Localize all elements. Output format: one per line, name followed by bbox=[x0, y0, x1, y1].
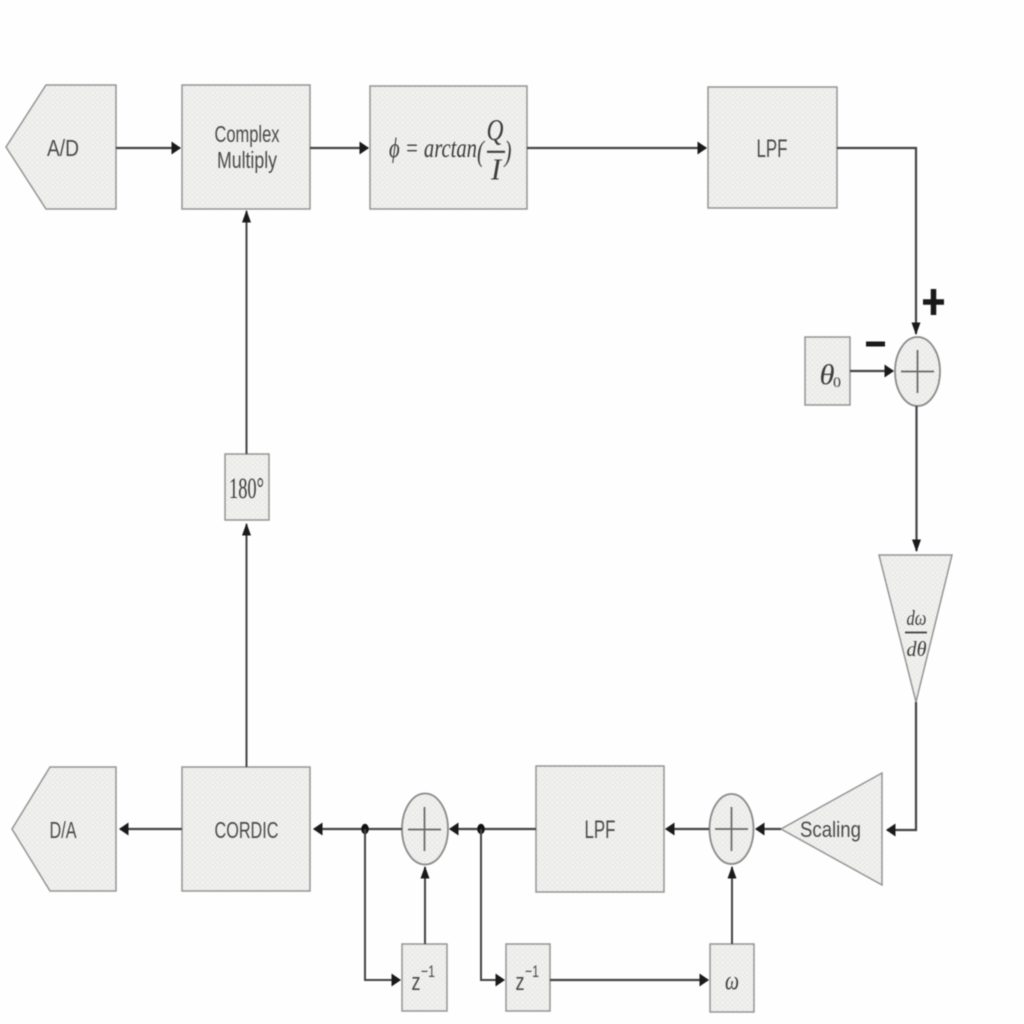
svg-text:Q: Q bbox=[487, 112, 504, 147]
summer 2 (bottom right adder) bbox=[710, 794, 754, 864]
svg-text:A/D: A/D bbox=[47, 135, 79, 161]
block omega bbox=[710, 944, 754, 1012]
block dw/dtheta triangle bbox=[879, 555, 952, 702]
wire 180 deg up to Complex Multiply bbox=[246, 211, 248, 454]
junction dot left bbox=[361, 824, 369, 834]
svg-text:ω: ω bbox=[725, 966, 739, 995]
wire CORDIC up to 180 deg block bbox=[246, 524, 248, 767]
svg-text:Scaling: Scaling bbox=[800, 817, 861, 842]
svg-text:z: z bbox=[412, 969, 421, 996]
svg-text:LPF: LPF bbox=[585, 816, 616, 844]
block theta0 bbox=[805, 337, 850, 405]
block Scaling triangle bbox=[781, 773, 882, 885]
svg-text:): ) bbox=[503, 135, 511, 168]
block phi = arctan(Q/I) bbox=[370, 86, 527, 209]
svg-text:dθ: dθ bbox=[907, 637, 927, 661]
summer 3 (bottom left adder) bbox=[402, 794, 448, 865]
wire omega up to summer 2 bbox=[731, 867, 733, 944]
wire junction right down to z-1 box 2 bbox=[481, 829, 504, 980]
wire z-1 second to omega block bbox=[550, 979, 708, 981]
svg-text:z: z bbox=[516, 969, 525, 996]
svg-text:ϕ = arctan: ϕ = arctan bbox=[389, 133, 477, 163]
block CORDIC bbox=[182, 767, 310, 891]
svg-text:I: I bbox=[490, 152, 503, 187]
wire A/D to Complex Multiply bbox=[116, 147, 180, 149]
block Complex Multiply bbox=[182, 85, 310, 209]
wire Complex Multiply to arctan block bbox=[310, 147, 368, 149]
block LPF bottom bbox=[536, 766, 664, 892]
svg-text:Complex: Complex bbox=[215, 121, 280, 147]
wire summer 2 to LPF bottom bbox=[666, 828, 709, 830]
label minus sign bbox=[866, 342, 885, 347]
block z-1 second bbox=[506, 944, 550, 1011]
block A/D bbox=[6, 85, 116, 209]
svg-text:CORDIC: CORDIC bbox=[215, 817, 279, 843]
svg-text:180°: 180° bbox=[229, 472, 264, 505]
block 180 deg bbox=[225, 454, 269, 520]
svg-text:dω: dω bbox=[907, 606, 927, 630]
svg-text:0: 0 bbox=[833, 375, 841, 391]
svg-text:LPF: LPF bbox=[757, 135, 788, 163]
wire arctan block to LPF bbox=[527, 147, 706, 149]
svg-text:D/A: D/A bbox=[50, 817, 77, 843]
wire junction left down to z-1 box 1 bbox=[365, 829, 400, 980]
wire summer 1 down to dw/dtheta triangle bbox=[915, 406, 917, 551]
wire Scaling to summer 2 bbox=[756, 828, 781, 830]
wire z-1 first up to summer 3 bbox=[424, 867, 426, 944]
block z-1 first bbox=[402, 944, 447, 1011]
label plus sign bbox=[923, 289, 944, 315]
wire CORDIC to D/A bbox=[120, 828, 182, 830]
wire theta0 to summer 1 bbox=[850, 370, 893, 372]
wire dw/dtheta down then left to Scaling bbox=[887, 702, 916, 830]
svg-text:Multiply: Multiply bbox=[217, 147, 277, 173]
junction dot right bbox=[477, 824, 485, 834]
block D/A bbox=[12, 767, 116, 891]
svg-text:−1: −1 bbox=[421, 962, 435, 981]
wire summer 3 to CORDIC bbox=[314, 828, 402, 830]
wire LPF right then down to summer 1 bbox=[837, 148, 916, 334]
wire LPF bottom to summer 3 bbox=[450, 828, 536, 830]
summer 1 (top right adder) bbox=[895, 337, 940, 406]
svg-text:−1: −1 bbox=[525, 962, 539, 981]
block LPF top bbox=[708, 87, 837, 208]
